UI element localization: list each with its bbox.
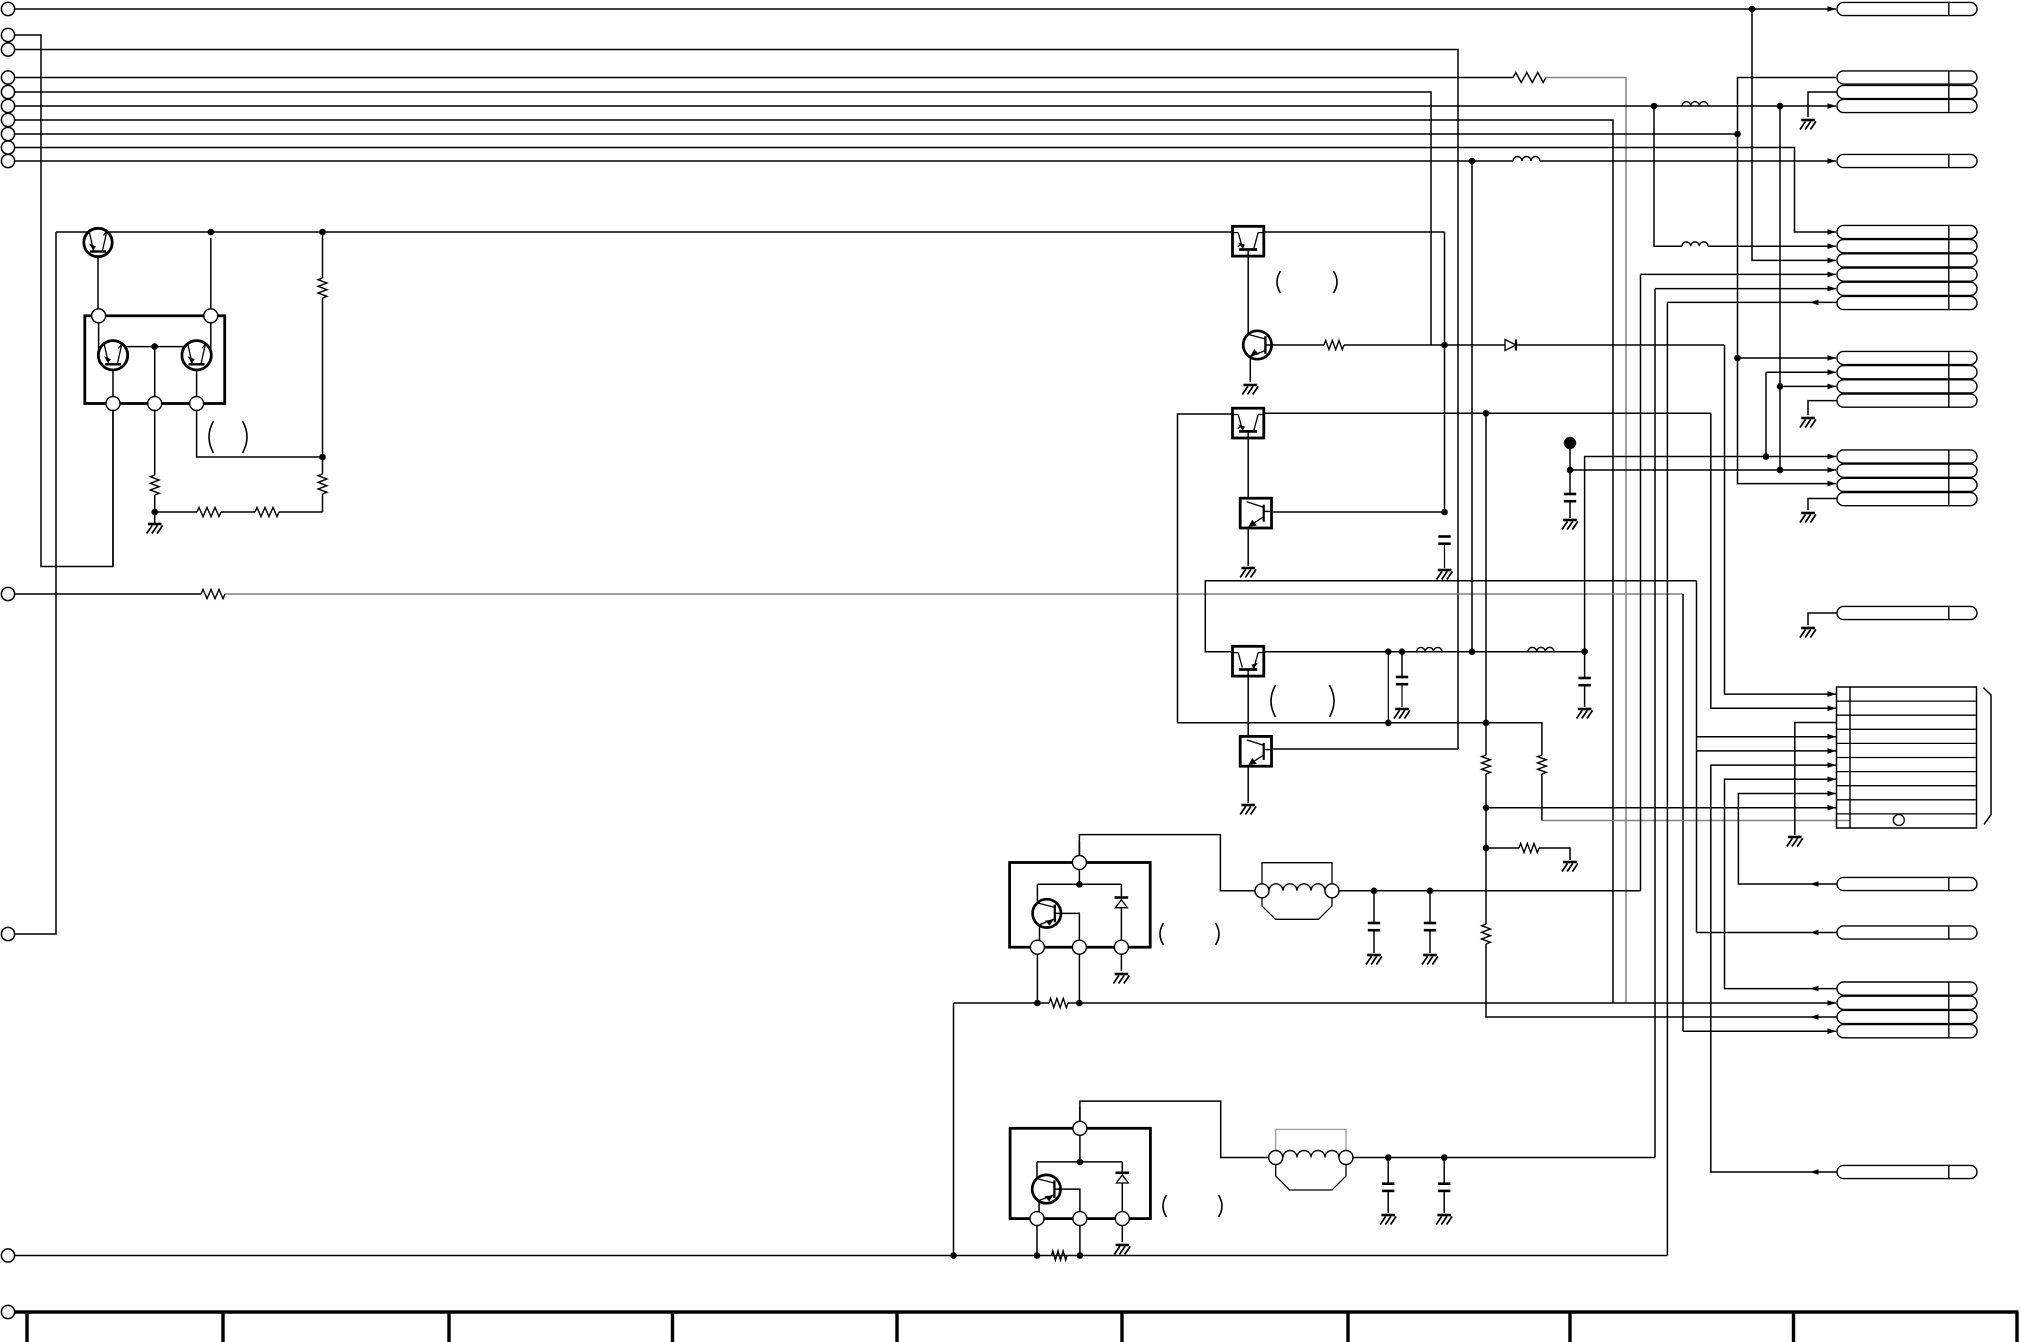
connector pill g6-4	[1837, 268, 1977, 281]
wire R8 bot	[1541, 774, 1543, 821]
node J4	[1734, 131, 1741, 138]
wire pill1031	[1683, 1030, 1836, 1032]
connector pill y92	[1837, 85, 1977, 98]
node J19	[1763, 453, 1770, 460]
pin RY1-2	[1072, 940, 1086, 954]
ground G14	[1381, 1214, 1395, 1217]
resistor R8	[1538, 755, 1547, 774]
arrow into y708.3	[1828, 706, 1837, 712]
wire net2 y35	[15, 35, 113, 567]
wire C4 link	[1584, 652, 1586, 678]
wire v1668	[1666, 302, 1668, 1255]
wire PC4 left	[1205, 581, 1696, 652]
wire y345	[1344, 344, 1725, 346]
ground G1	[148, 523, 162, 526]
ground G17	[1801, 119, 1815, 122]
arrow into y807.7	[1828, 805, 1837, 811]
connector pill y161	[1837, 154, 1977, 167]
wire y470	[1570, 469, 1836, 471]
inductor FL2 coil	[1283, 1151, 1339, 1158]
node J16	[1469, 648, 1476, 655]
arrow into y386.4	[1828, 384, 1837, 390]
wire TP1 down	[1569, 443, 1571, 494]
pin RY1-T	[1072, 856, 1086, 870]
connector pill g4c-4	[1837, 1025, 1977, 1038]
node J33	[1077, 1252, 1084, 1259]
connector pill g4c-3	[1837, 1010, 1977, 1023]
resistor R13	[1052, 1251, 1068, 1260]
wire net1 y9	[15, 8, 1836, 10]
wire Q6 emit	[1038, 1201, 1040, 1212]
arrow into y232	[1828, 229, 1837, 235]
terminal CN1-12	[1, 927, 14, 940]
inductor L2	[1417, 647, 1442, 651]
wire filt1 in	[1079, 835, 1255, 891]
wire C8 link	[1443, 1158, 1445, 1184]
node J8	[319, 454, 326, 461]
pin P1	[92, 309, 106, 323]
wire pin3 down	[112, 410, 114, 567]
wire pill302	[1667, 301, 1837, 303]
ground G12	[1115, 973, 1129, 976]
wire net10 y161	[15, 160, 1513, 162]
pin RY1-3	[1114, 940, 1128, 954]
wire C6 link	[1429, 891, 1431, 923]
connector pill g6-5	[1837, 282, 1977, 295]
node J24	[1483, 845, 1490, 852]
pin P2	[204, 309, 218, 323]
wire Q4 emitter	[1249, 358, 1251, 383]
pin RY2-T	[1073, 1121, 1087, 1135]
wire v1654 top	[1654, 106, 1682, 246]
wire RY1 inner h	[1037, 883, 1121, 885]
wire pill358	[1738, 357, 1837, 359]
terminal CN1-2	[1, 28, 14, 41]
wire net5 y92	[15, 92, 1431, 345]
ground G19	[1801, 627, 1815, 630]
node J12	[1483, 410, 1490, 417]
wire RY1 coll	[1036, 884, 1038, 903]
wire C4 bot	[1584, 685, 1586, 707]
wire pill386	[1780, 385, 1836, 387]
label PC4	[1271, 685, 1276, 717]
relay RY1 box	[1010, 863, 1151, 948]
optocoupler PC3	[1240, 498, 1271, 528]
node J28	[1034, 1000, 1041, 1007]
wire v1683	[1682, 594, 1684, 1031]
connector pill y9	[1837, 2, 1977, 15]
transistor Q2	[98, 341, 127, 370]
resistor R9	[1482, 755, 1491, 774]
capacitor C6	[1424, 922, 1436, 925]
wire v953	[953, 1003, 955, 1256]
relay RY2 box	[1010, 1128, 1150, 1218]
inductor L4	[1682, 242, 1708, 246]
ground G4	[1241, 567, 1255, 570]
wire Q4 base	[1266, 344, 1324, 346]
arrow into y470	[1828, 467, 1837, 473]
terminal CN1-8	[1, 127, 14, 140]
node J22	[1483, 720, 1490, 727]
wire R2 bot	[154, 495, 156, 512]
wire C5 link	[1373, 891, 1375, 923]
wire RY1p2 down	[1078, 954, 1080, 1004]
IC block rows	[1837, 700, 1977, 702]
resistor R11	[1482, 924, 1491, 944]
wire PC1 bottom	[1247, 256, 1249, 335]
wire v1654 low	[1654, 289, 1656, 1158]
wire pin2 down	[210, 238, 212, 352]
node J30	[1077, 1159, 1084, 1166]
wire net7 y120	[15, 120, 1613, 1003]
node J37	[1777, 383, 1784, 390]
node J35	[1441, 1154, 1448, 1161]
wire RY2 coll	[1036, 1162, 1038, 1179]
arrow into y372.2	[1828, 369, 1837, 375]
optocoupler PC4	[1233, 646, 1264, 676]
pin P5	[190, 397, 204, 411]
wire RY1 top	[1078, 841, 1080, 884]
capacitor C5	[1368, 922, 1380, 925]
terminal CN1-6	[1, 99, 14, 112]
wire pill92 gnd	[1808, 92, 1837, 117]
arrow into y358	[1828, 355, 1837, 361]
ground G5	[1395, 708, 1409, 711]
connector pill g4a-4	[1837, 394, 1977, 407]
node TP1 big	[1564, 437, 1576, 449]
ground G11	[1423, 954, 1437, 957]
terminal CN1-11	[1, 587, 14, 600]
wire row8	[1738, 794, 1837, 885]
node J9	[151, 343, 158, 350]
optocoupler PC5	[1240, 736, 1271, 766]
wire row9	[1486, 807, 1836, 809]
inductor L1	[1513, 157, 1540, 162]
wire vcc y232	[56, 231, 1233, 233]
connector pill y884	[1837, 877, 1977, 890]
node J36	[1734, 355, 1741, 362]
wire pill400 gnd	[1808, 401, 1837, 415]
filter FL2 frame	[1276, 1129, 1346, 1150]
wire v1724	[1725, 345, 1837, 694]
connector pill g4a-3	[1837, 380, 1977, 393]
wire net3 y49	[15, 50, 1458, 750]
node J26	[1427, 888, 1434, 895]
wire C2 bot	[1401, 684, 1403, 707]
wire Q6 base	[1055, 1189, 1080, 1212]
wire PC2 out	[1264, 412, 1711, 414]
resistor R5	[318, 474, 327, 494]
wire filt1 out	[1338, 890, 1640, 892]
node J25	[1371, 888, 1378, 895]
wire v1486	[1485, 413, 1487, 755]
capacitor C1	[1438, 535, 1450, 538]
ground bus ticks	[25, 1312, 28, 1342]
wire Q2 base link	[123, 346, 185, 348]
wire pill613 gnd	[1808, 613, 1837, 625]
arrow out y302.4	[1810, 300, 1819, 306]
optocoupler PC1	[1233, 226, 1264, 256]
wire grey row10	[1542, 820, 1850, 822]
ground G20	[1788, 836, 1802, 839]
wire y456	[1585, 457, 1836, 652]
resistor R3	[197, 507, 221, 516]
connector pill g4b-2	[1837, 464, 1977, 477]
pin P4	[148, 397, 162, 411]
transistor Q3	[182, 341, 211, 370]
node J3	[1777, 103, 1784, 110]
resistor R7	[1324, 340, 1344, 349]
wire v1737	[1738, 78, 1837, 484]
resistor R2	[150, 475, 159, 495]
wire PC2-PC3	[1247, 438, 1249, 498]
arrow into row y779.3	[1828, 777, 1837, 783]
wire net8 y134	[15, 133, 1738, 135]
terminal CN1-9	[1, 141, 14, 154]
wire PC3 bottom	[1247, 529, 1249, 566]
wire row4	[1697, 736, 1837, 738]
ground G3	[1438, 569, 1452, 572]
wire Q1 emitter	[97, 257, 99, 311]
terminal CN1-7	[1, 113, 14, 126]
connector pill y932	[1837, 926, 1977, 939]
wire y1003	[954, 1002, 1050, 1004]
wire y512c	[279, 511, 323, 513]
arrow into y260.4	[1828, 258, 1837, 264]
connector pill y77.5	[1837, 71, 1977, 84]
wire net13	[15, 1255, 1668, 1257]
arrow into y161	[1828, 158, 1837, 164]
transistor Q4	[1243, 331, 1271, 359]
wire PC4-PC5	[1247, 678, 1249, 737]
wire C7 link	[1387, 1158, 1389, 1184]
wire v1696	[1696, 581, 1698, 933]
wire row6	[1711, 765, 1837, 1172]
ground G7	[1563, 519, 1577, 522]
pin FL2b	[1339, 1151, 1353, 1165]
diode D3	[1116, 1172, 1130, 1175]
resistor R4	[255, 507, 279, 516]
wire pill932	[1697, 932, 1838, 934]
arrow out y932.5	[1810, 930, 1819, 936]
wire filt2 out	[1352, 1157, 1655, 1159]
ground G16	[1801, 417, 1815, 420]
node J1	[1749, 6, 1756, 13]
pin RY2-2	[1073, 1212, 1087, 1226]
capacitor C8	[1438, 1182, 1450, 1185]
wire RY2p1 down	[1036, 1225, 1038, 1256]
ground bus	[15, 1310, 2019, 1314]
wire v56	[15, 232, 56, 934]
arrow out y988.6	[1810, 986, 1819, 992]
node J27	[1076, 881, 1083, 888]
wire PC5 out	[1273, 748, 1458, 750]
capacitor C3	[1564, 493, 1576, 496]
wire C6 bot	[1429, 930, 1431, 953]
wire pill246	[1708, 245, 1836, 247]
terminal CN1-1	[1, 2, 14, 15]
ground G6	[1241, 804, 1255, 807]
node J34	[1385, 1154, 1392, 1161]
wire net6 y106	[15, 105, 1836, 107]
wire net11	[15, 593, 201, 595]
wire PC1 out	[1264, 231, 1445, 233]
pin P3	[106, 397, 120, 411]
terminal CN1-14	[1, 1305, 14, 1318]
wire y1003b	[1068, 1002, 1836, 1004]
connector pill g6-2	[1837, 240, 1977, 253]
transistor Q1	[84, 228, 112, 256]
node J17	[1581, 648, 1588, 655]
transistor Q5	[1033, 899, 1061, 927]
connector pill y613	[1837, 606, 1977, 619]
wire RY2p2 down	[1079, 1225, 1081, 1256]
ground G13	[1116, 1244, 1130, 1247]
filter FL1 frame	[1262, 863, 1332, 884]
connector pill g4c-1	[1837, 982, 1977, 995]
pin RY2-3	[1115, 1212, 1129, 1226]
wire net4a grey	[1546, 78, 1626, 1004]
wire v1710 a	[1711, 413, 1836, 708]
arrow into y456.5	[1828, 454, 1837, 460]
arrow out y884	[1810, 881, 1819, 887]
ground G2	[1244, 384, 1258, 387]
wire D3 link	[1121, 1162, 1123, 1173]
wire v1640	[1640, 274, 1642, 890]
wire D2 link	[1120, 884, 1122, 897]
wire D2 bot	[1120, 908, 1122, 941]
connector pill y1172	[1837, 1165, 1977, 1178]
wire R5 link	[322, 457, 324, 474]
wire pin1 down	[98, 322, 100, 352]
wire v1752	[1752, 9, 1836, 260]
wire RY2 in	[1080, 1101, 1270, 1157]
wire v1486c	[1486, 944, 1837, 1017]
node J10	[151, 509, 158, 516]
node J18	[1567, 467, 1574, 474]
pin FL2a	[1269, 1151, 1283, 1165]
wire pill498 gnd	[1808, 499, 1837, 511]
terminal CN1-5	[1, 85, 14, 98]
wire RY2p3 down	[1121, 1225, 1123, 1242]
wire RY2 inner h	[1037, 1161, 1122, 1163]
wire pill372	[1766, 371, 1836, 373]
wire net11 grey	[225, 593, 1683, 595]
arrow into y694.1	[1828, 691, 1837, 697]
wire Q3 emitter	[196, 370, 198, 398]
wire J14 link	[1387, 652, 1389, 723]
wire v1766	[1765, 372, 1767, 456]
connector pill y106	[1837, 99, 1977, 112]
wire row5	[1697, 750, 1837, 752]
ground G9	[1563, 861, 1577, 864]
capacitor C7	[1382, 1182, 1394, 1185]
wire Q5 base	[1055, 913, 1079, 941]
node J2	[1651, 103, 1658, 110]
wire v1472	[1471, 161, 1473, 652]
wire net10a	[1540, 160, 1836, 162]
resistor R6	[201, 589, 225, 598]
wire RY2 top	[1079, 1107, 1081, 1162]
pin RY1-1	[1030, 940, 1044, 954]
wire C5 bot	[1373, 930, 1375, 953]
connector pill g4b-1	[1837, 450, 1977, 463]
connector pill g6-3	[1837, 254, 1977, 267]
wire RY1p3 down	[1120, 954, 1122, 972]
wire R1 bottom	[322, 298, 324, 457]
arrow into row y793.5	[1828, 791, 1837, 797]
arrow into y750.9	[1828, 748, 1837, 754]
resistor R12	[1049, 998, 1068, 1007]
wire row7	[1725, 779, 1838, 988]
wire PC3 out	[1273, 511, 1444, 513]
wire C1 bot	[1444, 544, 1446, 568]
node J6	[208, 229, 215, 236]
wire net9 y147	[15, 148, 1836, 233]
wire v1780	[1779, 106, 1781, 470]
connector pill g4c-2	[1837, 996, 1977, 1009]
terminal CN1-13	[1, 1249, 14, 1262]
wire y723	[1178, 723, 1542, 755]
transistor pack Q2Q3 box	[85, 316, 225, 404]
node J31	[950, 1252, 957, 1259]
terminal CN1-10	[1, 154, 14, 167]
wire Q2 emitter	[112, 370, 114, 398]
transistor Q6	[1032, 1175, 1060, 1203]
node J14	[1385, 648, 1392, 655]
ground G10	[1367, 954, 1381, 957]
IC bracket	[1983, 688, 1991, 825]
ground G15	[1437, 1214, 1451, 1217]
wire G1 stub	[154, 512, 156, 523]
resistor R10	[1519, 843, 1539, 852]
label RY2	[1163, 1195, 1167, 1217]
wire Q5 emit	[1039, 926, 1041, 942]
connector pill g4b-4	[1837, 493, 1977, 506]
capacitor C4	[1578, 677, 1590, 680]
arrow into y274.4	[1828, 272, 1837, 278]
connector pill g4b-3	[1837, 478, 1977, 491]
wire v1486b	[1485, 774, 1487, 924]
node J21	[1385, 720, 1392, 727]
node J13	[1441, 509, 1448, 516]
wire y848	[1486, 847, 1519, 849]
node J29	[1076, 1000, 1083, 1007]
wire y512b	[221, 511, 255, 513]
node J23	[1483, 804, 1490, 811]
connector pill g6-1	[1837, 225, 1977, 238]
connector pill g4a-1	[1837, 351, 1977, 364]
arrow into y736.7	[1828, 734, 1837, 740]
wire PC4 out	[1264, 651, 1585, 653]
wire row3	[1795, 723, 1836, 836]
wire net4 y77	[15, 77, 1513, 79]
node J32	[1034, 1252, 1041, 1259]
wire pill288	[1655, 288, 1836, 290]
label RY1	[1160, 923, 1164, 945]
wire base down	[154, 347, 156, 398]
optocoupler PC2	[1233, 408, 1264, 438]
pin FL1b	[1325, 884, 1339, 898]
node J7	[319, 229, 326, 236]
terminal CN1-3	[1, 43, 14, 56]
ground G8	[1578, 708, 1592, 711]
connector pill g6-6	[1837, 296, 1977, 309]
wire C7 bot	[1387, 1191, 1389, 1213]
filter FL1 body	[1262, 898, 1332, 920]
IC block frame	[1837, 687, 1977, 828]
wire C8 bot	[1443, 1191, 1445, 1213]
